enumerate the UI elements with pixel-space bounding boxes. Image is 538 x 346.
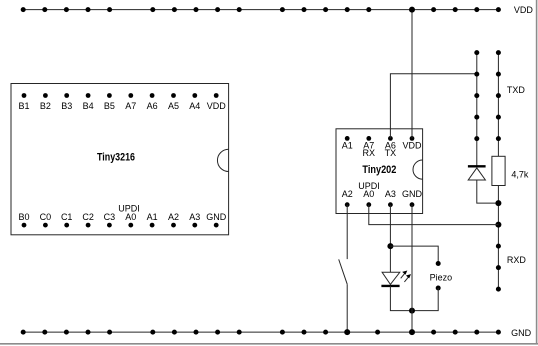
IC U1 top pin dots B1 B2 B3 B4 B5 A7 A6 A5 A4 VDD [22, 93, 219, 98]
wire U2 A2 pin down to switch [346, 205, 348, 259]
TXD/diode header column dots [474, 50, 479, 141]
IC U2 notch [413, 160, 423, 179]
IC U2 pin function labels RX TX [363, 148, 397, 158]
wire LED D2 cathode to GND node [390, 286, 412, 311]
node VDD label [514, 5, 534, 15]
svg-text:C3: C3 [104, 212, 116, 222]
svg-text:B1: B1 [18, 101, 29, 111]
switch S1 blade [339, 259, 348, 284]
junction dot diode/resistor node [495, 200, 501, 206]
RXD header column lower dots [496, 244, 501, 292]
svg-text:Piezo: Piezo [430, 272, 453, 282]
sheet border bottom edge [0, 343, 538, 345]
svg-text:TXD: TXD [507, 85, 526, 95]
GND rail wire [22, 331, 498, 333]
svg-text:RX: RX [363, 148, 376, 158]
node GND label [511, 328, 531, 338]
svg-text:B3: B3 [61, 101, 72, 111]
svg-text:B0: B0 [18, 212, 29, 222]
wire U2 A0/UPDI pin down and right to RXD column [369, 205, 499, 225]
junction dot GND rail at x=412 [409, 329, 415, 335]
IC U1 bottom pin labels [18, 212, 226, 222]
LED D2 triangle [382, 272, 400, 284]
svg-text:VDD: VDD [402, 141, 422, 151]
wire U2 A3 pin down to LED anode [389, 205, 391, 273]
wire U2 A6/TX pin up and right to TXD column [390, 74, 476, 139]
svg-text:A6: A6 [147, 101, 158, 111]
VDD rail pin dots [21, 7, 501, 12]
IC U1 pin A0 UPDI function label [118, 204, 140, 214]
IC U1 Tiny3216 body [11, 84, 229, 235]
resistor R1 body [492, 156, 505, 185]
diode D1 triangle [468, 168, 485, 180]
svg-text:Tiny202: Tiny202 [362, 164, 396, 176]
junction dot LED/piezo GND node [409, 308, 415, 314]
IC U2 name Tiny202 [362, 164, 396, 176]
svg-text:A7: A7 [125, 101, 136, 111]
svg-text:A0: A0 [363, 189, 374, 199]
IC U1 bottom pin dots B0 C0 C1 C2 C3 A0 A1 A2 A3 GND [22, 223, 219, 228]
svg-text:Tiny3216: Tiny3216 [97, 152, 135, 164]
IC U2 Tiny202 body [336, 129, 423, 214]
junction dot VDD rail at x=412 [409, 7, 415, 13]
wire switch S1 to GND rail [346, 284, 348, 332]
IC U1 top pin labels [18, 101, 226, 111]
svg-text:RXD: RXD [507, 255, 527, 265]
svg-text:A2: A2 [168, 212, 179, 222]
RXD header column upper dots [496, 50, 501, 141]
svg-text:A4: A4 [189, 101, 200, 111]
RXD header column wire upper segment [497, 53, 499, 157]
IC U2 pin A0 UPDI function label [358, 181, 380, 191]
IC U2 bottom pin labels A2 A0 A3 GND [342, 189, 423, 199]
junction dot A3/piezo branch [387, 243, 393, 249]
LED D2 emission arrow 1 [401, 271, 408, 279]
svg-text:4,7k: 4,7k [511, 170, 529, 180]
svg-text:C1: C1 [61, 212, 73, 222]
resistor R1 value 4,7k [511, 170, 529, 180]
svg-text:GND: GND [402, 189, 423, 199]
sheet border right edge [536, 0, 538, 345]
svg-text:A2: A2 [342, 189, 353, 199]
IC U1 name Tiny3216 [97, 152, 135, 164]
node TXD label [507, 85, 526, 95]
svg-text:C0: C0 [40, 212, 52, 222]
svg-text:GND: GND [511, 328, 531, 338]
svg-text:B2: B2 [40, 101, 51, 111]
IC U2 top pin dots A1 A7 A6 VDD [345, 136, 415, 141]
wire A3 branch to piezo [390, 246, 438, 263]
wire U2 GND pin down to GND rail [411, 205, 413, 332]
VDD rail wire [22, 9, 498, 11]
IC U1 notch [217, 149, 228, 171]
svg-text:VDD: VDD [514, 5, 534, 15]
wire piezo return to GND node [412, 288, 438, 311]
piezo LS1 label [430, 272, 453, 282]
svg-text:B5: B5 [104, 101, 115, 111]
wire U2 VDD pin to VDD rail [411, 10, 413, 139]
diode D1 cathode bar [468, 165, 486, 167]
svg-text:A1: A1 [342, 141, 353, 151]
LED D2 emission arrow 2 [404, 274, 411, 282]
svg-text:TX: TX [385, 148, 397, 158]
svg-text:VDD: VDD [207, 101, 227, 111]
IC U2 top pin labels [342, 141, 422, 151]
svg-text:C2: C2 [82, 212, 94, 222]
LED D2 cathode bar [381, 285, 399, 287]
svg-text:A5: A5 [168, 101, 179, 111]
svg-text:A1: A1 [147, 212, 158, 222]
node RXD label [507, 255, 527, 265]
junction dot A0/UPDI to RXD column [495, 222, 501, 228]
IC U2 bottom pin dots A2 A0 A3 GND [345, 202, 415, 207]
GND rail pin dots [21, 330, 501, 335]
wire resistor R1 bottom column segment [497, 186, 499, 290]
svg-text:B4: B4 [83, 101, 94, 111]
wire diode D1 anode down and right to resistor bottom node [477, 180, 499, 203]
junction dot GND rail at x=347 [344, 329, 350, 335]
svg-text:UPDI: UPDI [118, 204, 140, 214]
piezo LS1 pin dots [436, 261, 441, 291]
svg-text:A3: A3 [189, 212, 200, 222]
svg-text:A3: A3 [385, 189, 396, 199]
svg-text:GND: GND [206, 212, 227, 222]
TXD/diode header column wire [476, 53, 478, 166]
